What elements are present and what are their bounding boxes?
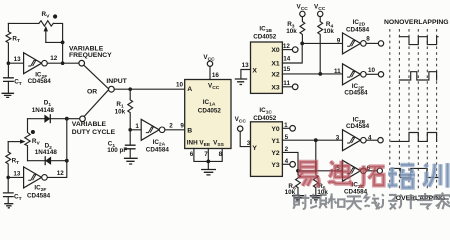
wire IC2D output to terminal [366, 42, 378, 44]
svg-text:CD4584: CD4584 [344, 188, 368, 195]
node output 8 terminal [378, 41, 383, 46]
inverter IC2C (Schmitt) [343, 160, 361, 181]
svg-text:CD4584: CD4584 [344, 89, 368, 96]
ground (C1) [124, 158, 138, 164]
VCC node for R3 [300, 11, 305, 16]
pin X3 stub and NC circle [282, 86, 292, 88]
node VARIABLE FREQUENCY terminal [79, 60, 85, 66]
svg-text:CD4584: CD4584 [28, 78, 52, 85]
dashed line 5 [426, 29, 428, 190]
svg-text:Y2: Y2 [271, 150, 280, 157]
wire to duty-cycle terminal [67, 118, 80, 120]
wire IC2B output to terminal [366, 139, 378, 141]
svg-text:NONOVERLAPPING: NONOVERLAPPING [384, 19, 449, 26]
svg-text:CD4584: CD4584 [346, 27, 370, 34]
resistor RT (top oscillator) [6, 23, 11, 63]
svg-text:1: 1 [284, 122, 288, 129]
svg-text:9: 9 [337, 37, 341, 44]
svg-text:12: 12 [50, 55, 58, 62]
floating dot right of RV label [53, 14, 57, 18]
wire diagonal from variable frequency [84, 66, 109, 89]
node input junction (bottom osc) [6, 176, 10, 180]
svg-text:2: 2 [285, 146, 289, 153]
svg-text:1: 1 [135, 123, 139, 130]
svg-text:4: 4 [285, 158, 289, 165]
svg-text:CD4052: CD4052 [198, 107, 222, 114]
svg-text:X: X [252, 68, 257, 75]
svg-text:11: 11 [334, 68, 341, 75]
node dot R6/Y2 junction [296, 169, 300, 173]
svg-text:FREQUENCY: FREQUENCY [69, 52, 112, 59]
svg-text:10k: 10k [323, 28, 334, 35]
svg-text:2: 2 [169, 122, 173, 129]
svg-text:12: 12 [57, 170, 65, 177]
inverter IC2D (Schmitt) [343, 33, 361, 54]
svg-text:10k: 10k [286, 28, 297, 35]
svg-text:CD4584: CD4584 [346, 123, 370, 130]
node INPUT terminal [109, 86, 115, 92]
resistor R4 10k [318, 17, 323, 74]
svg-text:B: B [187, 128, 192, 135]
svg-text:10: 10 [368, 67, 376, 74]
wire Y2 (pin 2) to IC2C [282, 152, 342, 170]
waveform output10 nonoverlapping phase2 [399, 72, 436, 80]
resistor R1 10k [128, 89, 133, 130]
pin X0 stub and NC circle [282, 49, 292, 51]
node dot output/feedback [61, 61, 65, 65]
dashed line 2 [398, 29, 400, 190]
pin 13 wire to ground [241, 70, 251, 79]
node output 10 terminal [378, 72, 383, 77]
waveform output8 nonoverlapping phase1 [399, 37, 438, 45]
svg-text:10: 10 [176, 81, 184, 88]
wire Y1 (pin 5) to IC2B [282, 139, 342, 141]
inverter IC2E (Schmitt) [343, 64, 361, 85]
wire inverter output to node [47, 62, 79, 64]
svg-text:X3: X3 [271, 84, 280, 91]
svg-text:A: A [187, 86, 192, 93]
pin Y0 stub and NC circle [282, 127, 289, 129]
resistor RT (bottom oscillator) [6, 142, 11, 178]
svg-text:Y0: Y0 [271, 126, 280, 133]
IC U1C box CD4052 [251, 122, 283, 177]
svg-text:OR: OR [87, 88, 97, 95]
svg-text:13: 13 [242, 62, 250, 69]
wire inverter input (bottom) [8, 176, 23, 178]
wire feedback vertical to output [62, 42, 64, 63]
watermark blue char 5 [423, 163, 448, 188]
RV wiper arrow [45, 31, 47, 43]
svg-text:7: 7 [204, 151, 208, 158]
waveform output6 overlapping phase2 [391, 168, 438, 177]
svg-text:CD4584: CD4584 [27, 193, 51, 200]
svg-text:X0: X0 [271, 47, 280, 54]
diode D2 (1N4148, cathode left) [45, 157, 51, 165]
svg-text:1N4148: 1N4148 [35, 149, 58, 156]
capacitor CT (bottom oscillator) [7, 177, 9, 192]
floating dot above RV label (bottom) [31, 130, 35, 134]
ground (bottom-left CT) [4, 204, 13, 208]
node output 4 terminal [378, 138, 383, 143]
inverter IC2B (Schmitt) [343, 130, 361, 151]
svg-text:11: 11 [283, 80, 290, 87]
svg-text:CD4052: CD4052 [253, 34, 277, 41]
watermark red char 2 [328, 161, 353, 186]
svg-text:8: 8 [366, 35, 370, 42]
diode D1 (1N4148, anode left) [44, 115, 50, 123]
wire X1 (pin 14) to IC2D [282, 43, 342, 63]
watermark gray tagline row [293, 193, 450, 210]
wire top rail left segment [8, 22, 39, 24]
svg-text:16: 16 [212, 72, 220, 79]
capacitor CT (top oscillator) [7, 63, 9, 77]
resistor R6 10k (pulldown on Y2) [296, 171, 301, 195]
wire X2 (pin 15) to IC2E [282, 73, 342, 75]
pins 6,7,8 wires to ground [194, 149, 222, 169]
svg-text:VARIABLE: VARIABLE [72, 121, 107, 128]
RV wiper arrow (points right) [8, 141, 21, 143]
node input junction (top osc) [7, 61, 11, 65]
IC U1B box CD4052 [251, 42, 283, 93]
node dot top-right (D1 to output rail) [65, 117, 69, 121]
node dot R1 tap [128, 87, 132, 91]
wire top rail of bottom oscillator [28, 118, 67, 120]
svg-text:X2: X2 [271, 72, 280, 79]
svg-text:3: 3 [247, 140, 251, 147]
inverter IC2A (Schmitt) [141, 119, 159, 140]
svg-text:3: 3 [336, 134, 340, 141]
svg-text:15: 15 [283, 66, 291, 73]
timing dashed grid lines [390, 29, 437, 190]
ground (R6) [292, 196, 304, 200]
VCC node (IC1C Y common) [238, 126, 243, 131]
inverter IC2F (bottom, Schmitt) [24, 167, 42, 188]
node dot R3/X1 junction [300, 42, 304, 46]
wire IC2A output to pin B [165, 129, 185, 131]
svg-text:X1: X1 [271, 61, 280, 68]
svg-text:8: 8 [219, 151, 223, 158]
node dot D2 rail to output rail [65, 159, 69, 163]
svg-text:9: 9 [180, 122, 184, 129]
ground (IC1B X common) [235, 79, 247, 85]
node dot wiper/feedback junction [61, 41, 65, 45]
svg-text:CD4052: CD4052 [253, 115, 277, 122]
wire from RV to right corner [53, 23, 62, 42]
ground (IC1A pins) [201, 170, 216, 175]
dashed line 3 [408, 29, 410, 190]
IC U1A box CD4052 [185, 80, 231, 149]
pin 3 wire to VCC [240, 131, 250, 146]
wire output right rail vertical [47, 119, 67, 178]
node VARIABLE DUTY CYCLE terminal [80, 116, 86, 122]
ground (top-left CT) [2, 93, 15, 97]
watermark blue char 4 [388, 165, 415, 188]
wire IC2E output to terminal [366, 73, 378, 75]
dashed line 1 [389, 29, 391, 190]
waveform output4 overlapping phase1 [391, 133, 437, 142]
svg-text:12: 12 [283, 43, 291, 50]
wire diagonal from variable duty cycle [84, 90, 109, 117]
dashed line 6 [436, 29, 438, 190]
svg-text:DUTY CYCLE: DUTY CYCLE [72, 129, 116, 136]
watermark red char 3 [359, 165, 385, 185]
pin Y3 stub and NC circle [282, 163, 289, 165]
svg-text:Y: Y [252, 145, 257, 152]
node dot IC2A input junction [128, 128, 132, 132]
wire IC2C output to terminal [366, 170, 377, 172]
potentiometer RV (bottom, vertical body) [25, 119, 30, 161]
ground (R5) [310, 196, 322, 200]
wire wiper to feedback node [46, 41, 63, 43]
wire to IC2A input [130, 129, 141, 131]
svg-text:Y1: Y1 [271, 138, 280, 145]
node dot R5/Y1 junction [314, 138, 318, 142]
svg-text:INPUT: INPUT [106, 78, 127, 85]
pin 16 wire and VCC node [209, 66, 211, 79]
svg-text:1N4148: 1N4148 [32, 107, 55, 114]
svg-text:100 pF: 100 pF [107, 147, 127, 154]
node output 6 terminal [377, 168, 382, 173]
svg-text:CD4584: CD4584 [146, 147, 170, 154]
resistor R3 10k [300, 17, 305, 44]
VCC node for R4 [318, 11, 323, 16]
svg-text:10k: 10k [115, 109, 126, 116]
svg-text:13: 13 [14, 56, 22, 63]
potentiometer RV (top, horizontal body) [39, 21, 53, 26]
svg-text:14: 14 [283, 56, 291, 63]
wire bottom diode rail [28, 160, 67, 162]
capacitor C1 100pF [129, 130, 131, 145]
watermark red char 1 (left big char) [299, 162, 319, 187]
resistor R5 10k (pulldown on Y1) [313, 140, 318, 195]
dashed line 4 [417, 29, 419, 190]
wire INPUT to pin A [114, 88, 184, 90]
op-amp/inverter IC2F (top, Schmitt) [24, 53, 42, 74]
svg-text:Y3: Y3 [271, 162, 280, 169]
svg-text:6: 6 [190, 151, 194, 158]
svg-text:13: 13 [13, 170, 21, 177]
node dot R4/X2 junction [318, 72, 322, 76]
svg-text:5: 5 [285, 134, 289, 141]
wire inverter input [8, 62, 23, 64]
